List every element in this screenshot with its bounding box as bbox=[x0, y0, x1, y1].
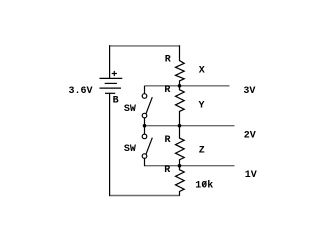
svg-text:10k: 10k bbox=[195, 179, 213, 191]
svg-text:2V: 2V bbox=[244, 130, 256, 141]
svg-text:R: R bbox=[164, 165, 170, 176]
svg-text:SW: SW bbox=[124, 104, 136, 115]
svg-text:SW: SW bbox=[124, 144, 136, 155]
svg-text:X: X bbox=[199, 65, 205, 76]
svg-text:R: R bbox=[164, 85, 170, 96]
svg-text:1V: 1V bbox=[245, 170, 257, 181]
svg-text:B: B bbox=[113, 95, 119, 106]
svg-text:Y: Y bbox=[199, 101, 205, 112]
svg-text:3.6V: 3.6V bbox=[69, 86, 93, 97]
svg-text:Z: Z bbox=[199, 145, 205, 156]
svg-text:3V: 3V bbox=[243, 86, 255, 97]
svg-text:R: R bbox=[165, 135, 171, 146]
svg-text:R: R bbox=[165, 55, 171, 66]
